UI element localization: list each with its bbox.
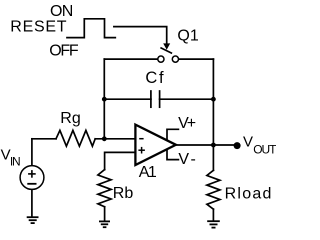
ground symbol under Rb	[99, 221, 110, 227]
ground symbol under Rload	[207, 221, 220, 227]
svg-text:V+: V+	[178, 115, 196, 132]
transistor switch Q1 blade	[160, 48, 172, 54]
svg-text:Rload: Rload	[225, 186, 272, 203]
svg-text:OUT: OUT	[253, 143, 276, 157]
wire switch to right rail	[179, 58, 214, 60]
wire Vin bottom lead	[31, 190, 33, 217]
switch Q1 right contact	[172, 56, 178, 62]
op-amp non-inverting input plus mark	[138, 147, 145, 154]
switch Q1 left contact	[158, 56, 164, 62]
node junction dot output	[211, 143, 216, 148]
op-amp A1 triangle	[135, 125, 176, 165]
wire Rload to ground	[212, 209, 214, 220]
node junction dot inverting input	[102, 136, 107, 141]
resistor Rload zigzag	[207, 170, 220, 209]
capacitor C f left lead	[104, 98, 151, 100]
svg-text:Q1: Q1	[177, 28, 198, 45]
ground symbol under VIN	[27, 217, 39, 223]
source VIN plus sign	[28, 170, 36, 178]
resistor Rb zigzag	[98, 170, 111, 207]
reset pulse waveform	[67, 19, 115, 38]
wire reset routing to Q1	[114, 27, 167, 44]
op-amp inverting input minus mark	[139, 138, 143, 140]
svg-text:V-: V-	[178, 151, 196, 168]
wire right vertical rail	[212, 59, 214, 170]
wire Vin to Rg	[32, 138, 56, 140]
node junction dot Cf left	[102, 97, 107, 102]
svg-text:V: V	[243, 133, 253, 150]
node junction dot Cf right	[211, 97, 216, 102]
wire Rb to ground	[104, 207, 106, 221]
capacitor Cf right lead	[160, 98, 214, 100]
node terminal dot Vout	[234, 142, 241, 149]
svg-text:ON: ON	[50, 3, 73, 20]
wire left vertical of Cf loop	[103, 59, 105, 139]
arrowhead onto Q1 blade	[163, 43, 170, 49]
V- bracket	[167, 149, 178, 159]
capacitor Cf plates	[150, 91, 152, 107]
wire Rg to inverting input	[95, 138, 134, 140]
wire Vin top lead	[31, 139, 33, 166]
wire non-inverting input lead	[105, 152, 135, 169]
svg-text:Rg: Rg	[60, 110, 80, 127]
svg-text:Rb: Rb	[113, 185, 134, 202]
svg-text:Cf: Cf	[145, 69, 164, 87]
resistor Rg zigzag	[56, 130, 95, 146]
op-amp output wire	[176, 144, 234, 146]
source VIN circle	[20, 166, 44, 190]
svg-text:A1: A1	[139, 164, 157, 181]
V+ bracket	[167, 129, 178, 140]
wire top rail left (Cf loop top to switch)	[104, 58, 157, 60]
svg-text:OFF: OFF	[49, 43, 79, 60]
svg-text:IN: IN	[10, 155, 21, 169]
source VIN minus sign	[27, 183, 36, 185]
svg-text:RESET: RESET	[10, 19, 66, 36]
